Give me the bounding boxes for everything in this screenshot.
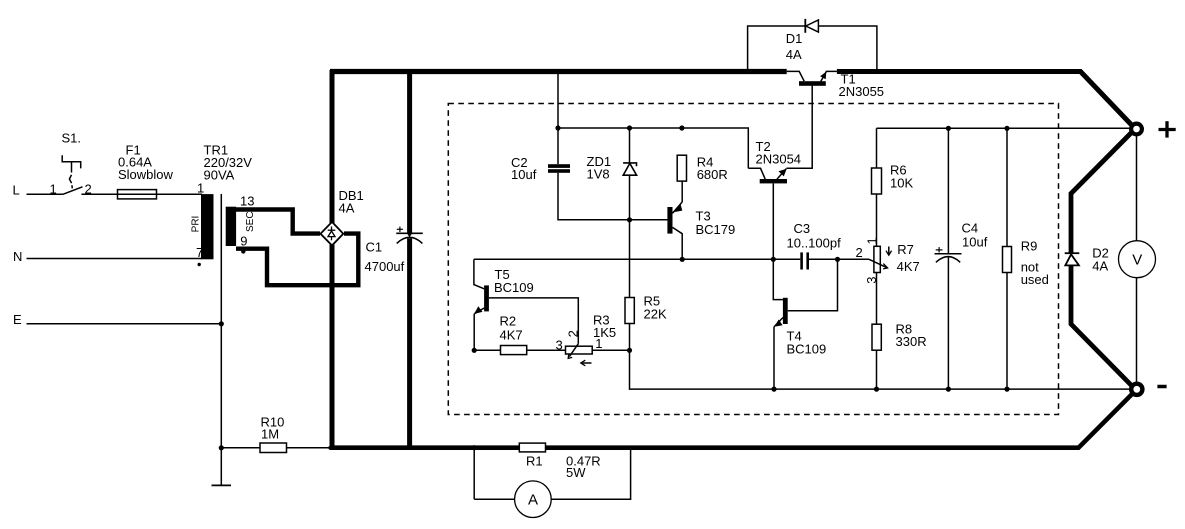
zener diode ZD1 top lead — [629, 128, 631, 163]
transistor T2 emitter arrow — [779, 169, 787, 177]
bridge rectifier DB1 top lead — [330, 70, 335, 223]
transistor T3 collector lead — [673, 227, 683, 259]
transistor T4 emitter arrow — [774, 320, 782, 327]
fuse F1 — [118, 190, 157, 199]
diode D2 branch lower — [1071, 265, 1132, 386]
svg-text:4700uf: 4700uf — [365, 259, 405, 274]
svg-text:2N3054: 2N3054 — [756, 152, 802, 167]
wire switch to fuse — [81, 193, 117, 195]
junction R3/R5 — [627, 348, 632, 353]
transformer TR1 secondary winding — [226, 207, 236, 246]
wire secondary pin 9 to DB1 — [236, 234, 358, 286]
svg-text:22K: 22K — [644, 307, 667, 322]
wire earth to R10 — [221, 447, 260, 449]
resistor R8 labels — [896, 322, 927, 350]
junction ammeter left — [472, 445, 477, 450]
wire D1 loop — [748, 26, 877, 70]
wire R3 to R5 node — [592, 349, 629, 351]
svg-text:2: 2 — [856, 245, 863, 260]
ammeter A — [515, 481, 552, 518]
wire R6 to R7 — [876, 194, 878, 246]
transistor T3 base bar — [667, 207, 672, 234]
junction ZD1 bottom — [627, 217, 632, 222]
wire top bus right segment to + terminal — [837, 72, 1134, 128]
resistor R6 labels — [890, 163, 913, 191]
svg-text:4A: 4A — [1092, 259, 1108, 274]
svg-text:1: 1 — [50, 182, 57, 197]
transistor T2 emitter lead — [777, 169, 786, 180]
resistor R4 — [677, 155, 686, 181]
wire R2 left — [474, 349, 500, 351]
bridge rectifier DB1 inner diode — [328, 227, 336, 241]
transistor T5 emitter arrow — [474, 306, 482, 314]
zener diode ZD1 labels — [587, 154, 612, 182]
svg-text:BC109: BC109 — [787, 342, 827, 357]
junction R10/bus — [328, 446, 332, 450]
switch S1 actuator — [62, 155, 80, 188]
svg-text:1V8: 1V8 — [587, 167, 610, 182]
wire error amp node (y=259) — [474, 258, 800, 260]
svg-text:90VA: 90VA — [204, 168, 235, 183]
svg-text:BC109: BC109 — [494, 280, 534, 295]
wire E to earth vertical — [27, 323, 222, 325]
resistor R8 — [872, 324, 881, 350]
transistor T1 emitter arrow — [820, 72, 826, 80]
capacitor C3 plates — [800, 252, 809, 269]
svg-text:330R: 330R — [896, 334, 927, 349]
resistor R4 bottom lead — [681, 181, 683, 202]
wire R7 to R8 — [876, 273, 878, 325]
resistor R1 (shunt) — [519, 443, 545, 452]
capacitor C2 top lead — [557, 128, 559, 164]
trimmer R3 adjust arrow — [581, 360, 592, 366]
wire bottom bus — [330, 391, 1136, 448]
wire R10 to bus — [287, 447, 332, 449]
svg-text:PRI: PRI — [191, 216, 202, 233]
svg-text:13: 13 — [240, 194, 254, 209]
svg-text:A: A — [528, 492, 538, 509]
trimmer R7 body — [874, 246, 880, 272]
junction T3 collector — [680, 257, 685, 262]
wire bus to inner rail — [557, 72, 559, 129]
transistor T3 labels — [696, 209, 736, 237]
svg-text:10K: 10K — [890, 176, 913, 191]
resistor R4 labels — [697, 155, 728, 183]
ground — [212, 484, 232, 486]
capacitor C2 bottom lead — [558, 173, 668, 220]
resistor R5 — [625, 298, 634, 324]
transistor T1 labels — [839, 72, 885, 100]
transistor T5 base bar — [484, 285, 489, 311]
wire ammeter left — [474, 498, 514, 500]
trimmer R7 wiper — [869, 259, 888, 269]
resistor R9 labels — [1021, 239, 1049, 288]
svg-text:C3: C3 — [794, 221, 811, 236]
trimmer R3 labels — [593, 313, 616, 341]
wire R2 to R3 — [527, 349, 566, 351]
capacitor C4 bottom lead — [947, 257, 949, 389]
transistor T4 emitter to rail — [773, 327, 775, 390]
plus sign — [1159, 121, 1176, 137]
svg-text:R7: R7 — [897, 242, 914, 257]
svg-text:C1: C1 — [366, 240, 383, 255]
minus sign — [1157, 385, 1166, 389]
transistor T4 labels — [787, 329, 827, 357]
capacitor C4 labels — [962, 220, 988, 249]
svg-text:1M: 1M — [261, 427, 279, 442]
junction R2 left — [472, 348, 477, 353]
svg-text:9: 9 — [240, 233, 247, 248]
transistor T5 labels — [494, 267, 534, 295]
fuse F1 labels — [118, 143, 174, 183]
transistor T2 base lead — [772, 183, 774, 259]
junction T4 emitter/rail — [771, 387, 776, 392]
svg-text:R1: R1 — [526, 454, 543, 469]
wire ammeter right — [551, 448, 630, 500]
svg-text:L: L — [13, 182, 20, 197]
capacitor C1 top lead — [407, 70, 412, 233]
junction E/earth — [219, 321, 224, 326]
svg-text:680R: 680R — [697, 167, 728, 182]
resistor R5 bottom lead — [629, 324, 631, 351]
capacitor C2 plates — [548, 164, 570, 173]
capacitor C1 plates — [396, 233, 423, 243]
terminal + — [1131, 124, 1142, 135]
wire R6 top lead — [876, 128, 878, 168]
diode D2 — [1065, 253, 1080, 265]
zener diode ZD1 — [623, 163, 637, 175]
junction C4 top — [946, 126, 951, 131]
bridge rectifier DB1 body — [321, 222, 344, 246]
svg-text:BC179: BC179 — [696, 222, 736, 237]
junction R10 tee — [219, 445, 224, 450]
svg-text:SEC: SEC — [245, 211, 256, 232]
svg-text:N: N — [13, 249, 22, 264]
resistor R9 top lead — [1006, 128, 1008, 246]
svg-text:2: 2 — [566, 330, 581, 337]
trimmer R7 adjust arrow — [886, 247, 892, 256]
resistor R10 labels — [261, 415, 285, 442]
svg-text:used: used — [1021, 272, 1049, 287]
svg-text:R2: R2 — [500, 314, 517, 329]
transformer TR1 primary phase dot — [198, 263, 201, 266]
resistor R8 bottom lead — [876, 350, 878, 389]
resistor R1 labels — [526, 453, 601, 480]
svg-text:C4: C4 — [962, 220, 979, 235]
wire top bus left segment — [330, 69, 787, 74]
transistor T1 base lead — [787, 85, 813, 168]
resistor R6 — [872, 168, 882, 194]
diode D1 — [805, 19, 818, 33]
wire T4 collector node to R7 wiper — [838, 258, 870, 260]
wire ZD1 bottom to R5 — [629, 220, 631, 298]
resistor R9 bottom lead — [1006, 273, 1008, 390]
resistor R2 labels — [500, 314, 523, 343]
svg-text:10uf: 10uf — [511, 167, 537, 182]
junction ZD1 top — [627, 125, 632, 130]
wire fuse to TR1 pin1 — [157, 193, 203, 195]
capacitor C4 plus mark — [936, 247, 943, 252]
transformer TR1 core line — [220, 194, 222, 485]
wire voltmeter bottom — [1136, 278, 1138, 390]
wire regulated + rail — [877, 127, 1135, 129]
trimmer R7 wiper wire — [838, 258, 870, 260]
transistor T5 collector lead — [474, 259, 484, 289]
resistor R10 — [260, 443, 287, 453]
svg-text:10..100pf: 10..100pf — [787, 236, 842, 251]
diode D2 branch upper — [1071, 131, 1133, 254]
capacitor C2 labels — [511, 155, 537, 182]
trimmer R7 labels — [897, 242, 920, 274]
transistor T4 base bar — [783, 298, 788, 324]
bridge rectifier DB1 bottom lead — [330, 245, 335, 449]
resistor R9 — [1003, 247, 1012, 273]
trimmer R3 wiper — [568, 343, 578, 358]
junction C2 top — [555, 125, 560, 130]
wire secondary pin 13 to DB1 — [236, 210, 320, 234]
svg-text:R9: R9 — [1021, 239, 1038, 254]
transistor T3 emitter lead — [673, 202, 683, 213]
terminal - — [1131, 384, 1142, 395]
transformer TR1 secondary phase dot — [241, 249, 245, 253]
svg-text:1K5: 1K5 — [593, 325, 616, 340]
svg-text:10uf: 10uf — [962, 234, 988, 249]
resistor R2 — [501, 346, 527, 355]
svg-text:2N3055: 2N3055 — [839, 84, 885, 99]
capacitor C1 plus mark — [397, 227, 403, 232]
capacitor C4 plates — [935, 254, 962, 263]
transistor T4 collector lead — [788, 259, 838, 310]
bridge rectifier DB1 labels — [339, 188, 364, 216]
switch S1 blade — [63, 187, 83, 195]
diode D1 labels — [786, 31, 803, 62]
transistor T2 labels — [756, 139, 802, 167]
transistor T2 collector lead — [748, 168, 765, 179]
transistor T5 base lead — [489, 298, 578, 344]
junction T4 collector node — [835, 257, 840, 262]
svg-text:D1: D1 — [786, 31, 803, 46]
svg-text:V: V — [1132, 252, 1142, 269]
capacitor C1 labels — [365, 240, 405, 275]
diode D2 labels — [1092, 246, 1109, 274]
junction bus/inner drop — [555, 69, 560, 74]
transistor T1 collector lead — [787, 71, 805, 81]
transistor T1 emitter lead — [821, 71, 837, 81]
transistor T2 base bar — [760, 179, 787, 183]
svg-text:1: 1 — [865, 237, 880, 244]
transformer TR1 labels — [204, 143, 253, 183]
voltmeter V — [1119, 241, 1156, 278]
transistor T4 emitter lead — [774, 318, 783, 327]
zener diode ZD1 bottom lead — [629, 175, 631, 220]
junction C4 bottom — [946, 387, 951, 392]
transistor T1 base bar — [799, 81, 826, 86]
wire N to TR1 pin7 — [27, 258, 203, 260]
transistor T4 base lead — [773, 259, 783, 299]
svg-text:S1.: S1. — [62, 131, 82, 146]
junction R4 top — [679, 125, 684, 130]
capacitor C4 top lead — [947, 128, 949, 253]
capacitor C3 labels — [787, 221, 842, 251]
transistor T5 emitter to R2 node — [473, 314, 475, 351]
junction T2 base — [771, 257, 776, 262]
wire ammeter left drop — [473, 448, 475, 500]
capacitor C1 bottom lead — [407, 238, 412, 448]
wire inner top rail — [558, 128, 748, 168]
junction R9 top — [1004, 126, 1009, 131]
junction R9 bottom — [1004, 387, 1009, 392]
dashed regulator box — [448, 104, 1058, 415]
svg-text:4A: 4A — [339, 201, 355, 216]
wire C3 to T4 collector node — [809, 258, 838, 260]
transistor T3 emitter arrow — [674, 204, 683, 212]
junction R8/rail — [874, 387, 879, 392]
svg-text:4K7: 4K7 — [500, 328, 523, 343]
svg-text:1: 1 — [197, 181, 204, 196]
node L label — [13, 182, 20, 197]
svg-text:5W: 5W — [566, 465, 586, 480]
resistor R5 labels — [644, 294, 667, 322]
wire voltmeter top — [1136, 129, 1138, 241]
wire R5 node to bottom rail — [630, 350, 1135, 389]
trimmer R3 body — [566, 346, 593, 354]
wire L to switch — [27, 193, 63, 195]
svg-text:3: 3 — [556, 337, 563, 352]
transformer TR1 primary winding — [201, 194, 214, 259]
svg-text:E: E — [13, 312, 22, 327]
transistor T5 emitter lead — [474, 308, 484, 314]
svg-text:4A: 4A — [786, 47, 802, 62]
svg-text:Slowblow: Slowblow — [118, 167, 174, 182]
svg-text:4K7: 4K7 — [897, 259, 920, 274]
